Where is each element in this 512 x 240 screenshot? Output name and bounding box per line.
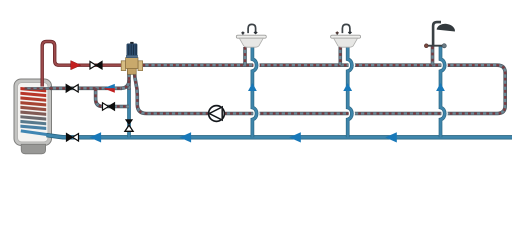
- wire: tank return segment inside tank: [25, 87, 52, 90]
- rounded corner at tank-return tee: [121, 80, 129, 88]
- tank pedestal: [21, 144, 45, 154]
- wire: cold riser to sink 2 (hops over supply and return): [348, 49, 352, 131]
- flow arrow up on shower riser: [436, 83, 445, 91]
- flow arrow left on cold main (segment 3): [289, 132, 301, 142]
- storage tank shell: [14, 79, 52, 146]
- wire: mixed supply stub to sink 2: [338, 47, 342, 65]
- cold water main (from street, right edge, into tank bottom): [21, 131, 48, 135]
- sink 2: [331, 24, 361, 47]
- shutoff valve on hot line (hollow-left / solid-right bowtie): [90, 62, 102, 69]
- wire: cold riser to shower (hops over supply and return): [441, 49, 445, 131]
- sink 1: [236, 24, 266, 47]
- flow arrow left on cold main (segment 2): [180, 132, 192, 142]
- flow arrow up on sink 2 riser: [343, 83, 352, 91]
- tank return bicolor arrow (blue/red, leftward): [103, 84, 115, 88]
- flow arrow up on sink 1 riser: [248, 83, 257, 91]
- circulator pump: [209, 106, 225, 122]
- cold feed leg into mixing valve (blue, below tee): [127, 88, 131, 137]
- flow arrow left on cold main (segment 4): [385, 132, 397, 142]
- hot outlet red pipe with heat-trap loop from tank top: [42, 42, 121, 87]
- bypass balancing valve (hollow-left / solid-right): [103, 103, 115, 110]
- shower: [424, 22, 455, 48]
- mixed supply loop: supply line, right drop, return line back to mixing valve: [135, 65, 506, 113]
- flow arrow (hot, red, rightward): [71, 61, 81, 70]
- mixing valve left leg (striped) down to tee with return line: [127, 71, 131, 90]
- thermostatic mixing valve: [121, 42, 142, 74]
- wire: cold riser to sink 1 (hops over supply and return): [252, 49, 256, 131]
- check valve on cold feed leg: [125, 119, 133, 131]
- wire: mixed supply stub to sink 1: [243, 47, 247, 65]
- bypass line with balancing valve: [96, 88, 129, 106]
- tank heat-stratification stripes: [20, 87, 46, 130]
- tank return shutoff valve (solid-left / hollow-right): [66, 85, 78, 92]
- wire: tank return line from tank upper port to mixing valve leg: [50, 87, 122, 91]
- flow arrow left on cold main (near tank): [90, 132, 102, 142]
- wire: mixed supply stub to shower: [431, 47, 435, 66]
- cold main shutoff valve (solid-left / hollow-right): [67, 134, 79, 141]
